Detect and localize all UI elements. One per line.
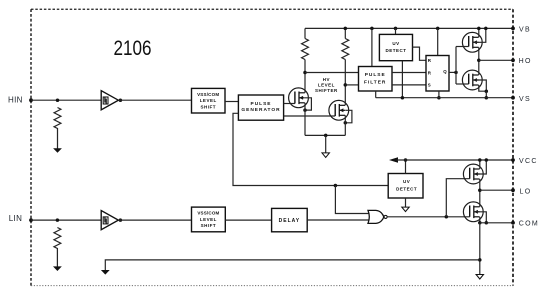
block RS latch xyxy=(426,56,449,92)
wire pulse generator to Q2 gate xyxy=(284,115,336,117)
wire VB rail down to pulse filter xyxy=(371,28,373,66)
svg-text:VSS/COM: VSS/COM xyxy=(197,211,219,216)
block UV DETECT (low side) xyxy=(388,174,423,199)
node common source midpoint xyxy=(324,134,328,138)
svg-text:PULSE: PULSE xyxy=(365,72,386,78)
transistor Q4 (HO low driver) xyxy=(462,70,482,90)
node HO pin xyxy=(511,58,515,62)
wire UV detect bottom xyxy=(405,198,407,207)
arrow VCC rail left terminator xyxy=(389,157,398,163)
label VSS/COM LEVEL SHIFT (HIN side) xyxy=(197,92,219,110)
ground COM hollow arrow under UV detect xyxy=(402,207,409,212)
ground VSS arrow bottom left xyxy=(101,270,110,275)
block VSS/COM LEVEL SHIFT (HIN side) xyxy=(192,88,226,113)
node HIN resistor tap xyxy=(56,98,60,102)
svg-text:LIN: LIN xyxy=(9,214,22,223)
svg-text:HV: HV xyxy=(323,77,330,82)
wire COM down to bottom return xyxy=(479,223,481,275)
svg-text:DETECT: DETECT xyxy=(396,186,417,191)
svg-text:DELAY: DELAY xyxy=(279,218,301,224)
node VB rail to latch feed xyxy=(436,27,440,31)
svg-text:VCC: VCC xyxy=(519,158,538,165)
wire pulse generator to Q1 gate xyxy=(284,103,295,105)
svg-text:SHIFTER: SHIFTER xyxy=(315,88,338,93)
wire delay to NOR gate xyxy=(307,219,368,221)
resistor R1 (HIN pulldown) xyxy=(54,108,61,149)
wire pulse generator down-left feed xyxy=(233,113,388,185)
node LO junction xyxy=(478,188,482,192)
schmitt buffer U1 (HIN) xyxy=(101,91,118,110)
wire U2 output to VSS/COM level shift xyxy=(118,219,191,221)
wire Q3 source down to HO xyxy=(478,47,480,60)
svg-text:HIN: HIN xyxy=(8,95,23,104)
node HIN pin xyxy=(29,98,33,102)
wire Q to Q3 gate xyxy=(456,46,469,48)
wire Q1 source down xyxy=(304,103,306,136)
wire LO rail to pin xyxy=(480,189,513,191)
wire Q2 drain up to resistor R3 node B xyxy=(344,60,346,106)
schmitt buffer U2 (LIN) xyxy=(101,211,118,230)
wire Q1/Q2 common source rail xyxy=(305,134,345,136)
node Q2 source-body join xyxy=(344,121,348,125)
svg-text:Q: Q xyxy=(443,69,447,74)
wire VB rail down to UV detect xyxy=(395,28,397,34)
block DELAY xyxy=(272,208,308,231)
wire LIN to input buffer xyxy=(31,219,101,221)
block UV DETECT (high side) xyxy=(379,34,412,60)
wire feed branch down to NOR input xyxy=(335,186,368,214)
node Q branch xyxy=(454,71,458,75)
node latch bottom on VS rail xyxy=(437,96,441,100)
transistor Q5 (LO high driver) xyxy=(463,164,483,184)
wire Q5 drain to VCC rail xyxy=(479,160,481,169)
resistor R3 (node B pull-up) xyxy=(342,39,349,60)
wire COM rail to pin xyxy=(480,222,513,224)
wire Q4 drain up to HO xyxy=(478,60,480,75)
svg-text:LO: LO xyxy=(520,188,532,195)
transistor Q3 (HO high driver) xyxy=(462,32,482,52)
wire branch up to Q5 gate xyxy=(446,179,469,217)
wire UV detect top to VCC rail xyxy=(405,160,407,174)
node Q4 on VS rail xyxy=(485,96,489,100)
svg-text:LEVEL: LEVEL xyxy=(318,83,335,88)
node R3 top on VB rail xyxy=(344,27,348,31)
wire UV detect bottom to VS rail xyxy=(401,61,403,98)
wire level shift to pulse generator xyxy=(225,101,238,103)
svg-text:LEVEL: LEVEL xyxy=(200,98,217,103)
node LIN pin xyxy=(29,218,33,222)
wire NOR output to Q6 gate xyxy=(387,216,470,218)
wire node B to pulse filter input xyxy=(345,84,358,86)
svg-text:UV: UV xyxy=(403,179,410,184)
wire pulse filter to latch R input xyxy=(392,72,426,74)
wire node A to pulse filter input xyxy=(305,72,359,74)
label PULSE GENERATOR xyxy=(241,101,280,113)
svg-text:VB: VB xyxy=(519,27,531,34)
node LO pin xyxy=(511,188,515,192)
transistor Q2 (level shift right) xyxy=(329,100,349,120)
node Q1 source-body join xyxy=(303,108,307,112)
label UV DETECT (high side) xyxy=(386,41,407,53)
ground VSS arrow under R4 xyxy=(53,266,62,271)
resistor R2 (node A pull-up) xyxy=(302,39,309,60)
label PULSE FILTER xyxy=(364,72,386,85)
node UV detect bottom on VS rail xyxy=(401,96,405,100)
wire UV detect output to latch R xyxy=(413,47,427,60)
svg-text:VS: VS xyxy=(519,96,531,103)
svg-text:SHIFT: SHIFT xyxy=(201,223,217,228)
svg-text:UV: UV xyxy=(392,41,399,46)
block PULSE GENERATOR xyxy=(238,95,283,120)
ground VS hollow arrow under level shifter xyxy=(322,153,329,158)
wire U1 output to VSS/COM level shift xyxy=(118,99,191,101)
node VB rail to UV detect feed xyxy=(394,27,398,31)
svg-text:LEVEL: LEVEL xyxy=(200,217,217,222)
svg-text:2106: 2106 xyxy=(114,37,152,60)
node Q4 source-body join xyxy=(485,89,489,93)
wire pulse filter bottom to VS rail xyxy=(375,91,377,98)
IC dashed border left edge xyxy=(30,9,32,285)
node VB rail to pulse filter feed xyxy=(370,27,374,31)
svg-text:FILTER: FILTER xyxy=(364,79,386,85)
node VCC pin xyxy=(511,158,515,162)
wire HO rail to pin xyxy=(479,59,513,61)
wire VS rail xyxy=(376,97,513,99)
wire pulse filter to latch S input xyxy=(392,84,426,86)
svg-text:VSS/COM: VSS/COM xyxy=(197,92,219,97)
node Q5 body on VCC xyxy=(485,158,489,162)
wire Q6 source down to COM xyxy=(479,217,481,223)
node Q5 drain on VCC xyxy=(478,158,482,162)
IC dashed border top edge xyxy=(31,8,513,10)
transistor Q6 (LO low driver) xyxy=(463,202,483,222)
svg-text:GENERATOR: GENERATOR xyxy=(241,107,280,113)
svg-text:HO: HO xyxy=(519,58,532,65)
wire Q2 body loop xyxy=(345,110,352,123)
node U2 output junction xyxy=(119,218,123,222)
wire Q1 drain up to resistor R2 node A xyxy=(304,60,306,93)
node A tap to pulse filter xyxy=(303,71,307,75)
wire Q1 body loop xyxy=(305,98,311,110)
node bottom return junction xyxy=(478,258,482,262)
node B tap to pulse filter xyxy=(344,83,348,87)
wire VB rail down to latch xyxy=(437,28,439,55)
label HV LEVEL SHIFTER xyxy=(315,77,338,93)
wire Q3 body to VB rail xyxy=(473,28,486,42)
wire Q6 drain up to LO xyxy=(479,190,481,207)
wire Q branch vertical xyxy=(455,47,457,85)
node LIN resistor tap xyxy=(56,218,60,222)
gate G1 NOR xyxy=(368,210,384,223)
node Q3 drain on VB xyxy=(477,27,481,31)
ground VSS arrow under R1 xyxy=(53,148,62,153)
resistor R4 (LIN pulldown) xyxy=(54,228,61,267)
node feed branch to NOR xyxy=(334,184,338,188)
wire Q to Q4 gate xyxy=(456,83,469,85)
node UV detect on VCC rail xyxy=(404,158,408,162)
IC dashed border bottom edge xyxy=(31,285,513,287)
svg-text:PULSE: PULSE xyxy=(251,101,272,107)
svg-text:S: S xyxy=(428,83,431,88)
wire Q5 body to VCC rail xyxy=(474,160,487,174)
transistor Q1 (level shift left) xyxy=(289,88,309,108)
ground COM hollow arrow bottom right xyxy=(476,275,483,280)
label VSS/COM LEVEL SHIFT (LIN side) xyxy=(197,211,219,229)
block VSS/COM LEVEL SHIFT (LIN side) xyxy=(192,207,226,232)
wire Q6 body loop xyxy=(474,212,487,223)
node COM pin xyxy=(511,221,515,225)
node Q6 body on COM xyxy=(485,221,489,225)
svg-text:DETECT: DETECT xyxy=(386,48,407,53)
wire Q4 body loop xyxy=(473,80,487,91)
node U1 output junction xyxy=(119,98,123,102)
IC dashed border right edge xyxy=(512,9,514,285)
wire Q4 join down to VS rail xyxy=(485,91,487,98)
wire HIN to input buffer xyxy=(31,99,101,101)
node Q3 body on VB xyxy=(484,27,488,31)
wire VCC rail xyxy=(397,159,514,161)
block PULSE FILTER xyxy=(359,67,393,92)
svg-text:COM: COM xyxy=(519,220,539,227)
wire Q4 source jog xyxy=(479,85,487,91)
wire bottom return line xyxy=(105,260,480,270)
wire Q5 source down to LO xyxy=(479,179,481,190)
node VS pin xyxy=(511,96,515,100)
wire latch bottom to VS rail xyxy=(438,91,440,98)
node HO junction xyxy=(477,59,481,63)
wire VB rail xyxy=(305,27,513,29)
svg-text:SHIFT: SHIFT xyxy=(200,104,216,109)
node VB pin xyxy=(511,27,515,31)
label UV DETECT (low side) xyxy=(396,179,417,191)
wire Q3 drain to VB rail xyxy=(478,28,480,37)
wire latch Q output xyxy=(449,71,456,73)
wire Q2 source down xyxy=(344,115,346,135)
wire level shift to delay xyxy=(225,219,271,221)
node Q6 source on COM xyxy=(478,221,482,225)
node NOR output branch xyxy=(445,215,449,219)
wire midpoint down to VS arrow xyxy=(325,135,327,153)
